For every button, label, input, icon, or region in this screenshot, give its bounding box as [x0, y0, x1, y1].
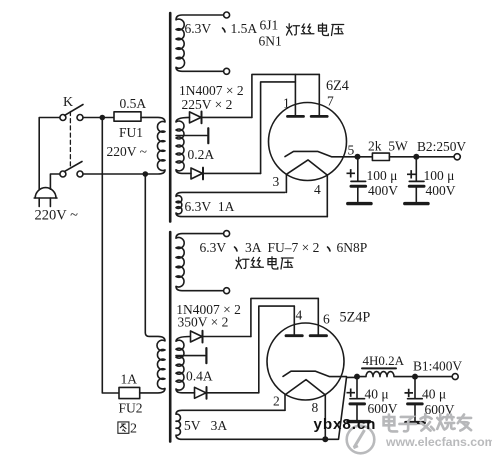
T1 HV winding 225Vx2: [176, 117, 191, 173]
V1 plate pin7: [311, 74, 327, 116]
V1 heater: [286, 160, 327, 175]
transformer T1 primary winding: [141, 117, 165, 174]
V2 pin 8 lead: [324, 395, 326, 439]
svg-text:400V: 400V: [426, 183, 456, 198]
ideographic comma (6.3V、3A): [235, 247, 238, 251]
wire V1 outer feed (to pin 7): [252, 74, 319, 117]
svg-text:1A: 1A: [121, 372, 138, 387]
svg-text:5V 3A: 5V 3A: [184, 418, 227, 433]
plus C4: [405, 389, 414, 397]
terminal B1: [452, 374, 458, 380]
tube V1 6Z4 envelope: [269, 103, 347, 181]
fuse FU1: [114, 112, 141, 121]
resistor R1 2k 5W: [372, 153, 389, 160]
svg-text:6J1: 6J1: [260, 18, 279, 33]
transformer T1 core: [169, 13, 172, 222]
V1 cathode to pin 5: [285, 151, 358, 156]
transformer T2 core: [169, 232, 172, 442]
terminal 6.3V3A top: [224, 231, 230, 237]
ideographic comma (6.3V、1.5A): [223, 28, 226, 32]
junction node A (mains bus): [100, 115, 106, 121]
node B2 rail junction 1: [355, 154, 361, 160]
diode D4 (1N4007 lower): [195, 387, 207, 399]
V1 pin 3 lead: [285, 174, 287, 192]
choke L1 4H 0.2A: [357, 368, 452, 376]
plus C3: [347, 389, 356, 397]
T1 winding 6.3V 1A: [176, 192, 327, 216]
char 电: [319, 23, 329, 35]
svg-text:6: 6: [323, 312, 330, 327]
svg-text:1N4007 × 2: 1N4007 × 2: [179, 83, 244, 98]
switch K bottom pole: [60, 162, 83, 178]
svg-text:2: 2: [273, 394, 280, 409]
wire plug-right to switch bottom pole: [50, 174, 60, 189]
svg-text:6N8P: 6N8P: [337, 240, 368, 255]
node pin8 / 5V rail junction: [322, 436, 328, 442]
ground C2: [405, 202, 428, 205]
svg-text:400V: 400V: [368, 183, 398, 198]
wire V1 inner feed (to pin 1): [261, 82, 296, 173]
svg-text:3A: 3A: [245, 240, 262, 255]
diode D2 (1N4007 lower): [191, 168, 203, 180]
wire resistor to B2 terminal: [389, 156, 454, 158]
svg-text:7: 7: [327, 94, 334, 109]
svg-text:100 μ: 100 μ: [367, 168, 398, 183]
svg-text:6N1: 6N1: [259, 34, 282, 49]
svg-text:6.3V: 6.3V: [185, 21, 212, 36]
V1 pin 4 lead: [326, 176, 328, 217]
svg-text:1.5A: 1.5A: [231, 21, 258, 36]
junction node T1-primary/T2-feed: [143, 171, 149, 177]
watermark 电子发烧友 script: [384, 414, 471, 431]
svg-text:3: 3: [273, 174, 280, 189]
svg-text:2: 2: [130, 422, 137, 437]
svg-text:2k 5W: 2k 5W: [368, 139, 408, 154]
svg-text:225V × 2: 225V × 2: [182, 97, 233, 112]
T2 HV winding 350Vx2: [176, 337, 195, 393]
svg-text:1: 1: [283, 96, 290, 111]
terminal 6.3V3A bottom: [224, 288, 230, 294]
tube V2 5Z4P envelope: [267, 323, 344, 400]
T2 winding 5V 3A: [176, 377, 357, 439]
T1 HV center tap bar: [207, 128, 209, 143]
svg-text:4H0.2A: 4H0.2A: [363, 353, 405, 368]
svg-text:4: 4: [314, 182, 321, 197]
svg-text:FU1: FU1: [119, 125, 143, 140]
svg-text:K: K: [63, 95, 73, 110]
wire D3 to V2 pin6 feed: [203, 336, 251, 338]
diode D1 (1N4007 upper): [190, 112, 202, 124]
svg-text:40 μ: 40 μ: [365, 387, 389, 402]
svg-text:0.2A: 0.2A: [188, 147, 215, 162]
T2 HV center tap wire: [176, 355, 205, 357]
V2 cathode: [283, 371, 347, 376]
wire D2 to V1 pin1 feed: [203, 172, 261, 174]
switch K top pole: [60, 105, 83, 121]
char 灯丝电压 top: [287, 23, 344, 35]
plus C2: [407, 170, 416, 178]
svg-text:4: 4: [296, 308, 303, 323]
svg-text:100 μ: 100 μ: [424, 168, 455, 183]
svg-text:FU2: FU2: [119, 401, 143, 416]
plug 220V mains: [34, 188, 57, 207]
watermark elecfans logo circle: [347, 426, 375, 454]
svg-text:FU–7 × 2: FU–7 × 2: [268, 240, 320, 255]
T1 HV center tap wire: [176, 135, 207, 137]
char 压: [332, 25, 344, 36]
terminal B2: [454, 154, 460, 160]
wire plug-left to switch top pole: [39, 118, 60, 190]
svg-text:B2:250V: B2:250V: [417, 139, 466, 154]
svg-text:B1:400V: B1:400V: [413, 359, 462, 374]
svg-text:0.5A: 0.5A: [120, 96, 147, 111]
plus signs: [347, 169, 416, 397]
wire V2 inner feed (to pin 4): [259, 306, 295, 393]
svg-text:220V ~: 220V ~: [107, 144, 147, 159]
svg-text:www.elecfans.com: www.elecfans.com: [385, 435, 492, 449]
V2 heater: [286, 380, 326, 395]
ideographic comma (FU-7x2、6N8P): [328, 247, 331, 251]
node B1 rail junction 2: [412, 374, 418, 380]
V2 plate pin6: [310, 298, 326, 335]
wire V2 outer feed (to pin 6): [251, 298, 318, 336]
V2 pin 2 lead: [284, 394, 286, 410]
T2 winding 6.3V 3A: [176, 234, 224, 291]
node B1 rail junction 1: [354, 374, 360, 380]
switch K mechanical link (dashed): [69, 112, 71, 168]
capacitor C1 100u400V: [351, 157, 366, 202]
ground C4: [406, 421, 424, 424]
wire switch bottom pole to T1 primary bottom: [83, 173, 145, 175]
T1 winding 6.3V 1.5A: [176, 15, 224, 71]
wire junction down to FU2: [102, 118, 119, 394]
svg-text:350V × 2: 350V × 2: [178, 315, 229, 330]
wire switch top pole to junction: [83, 117, 114, 119]
char 灯丝电压 bottom: [236, 257, 293, 269]
plus C1: [347, 169, 356, 177]
ground C1: [348, 202, 371, 205]
svg-text:6.3V 1A: 6.3V 1A: [185, 199, 235, 214]
char 丝: [301, 24, 314, 34]
T2 HV center tap bar: [205, 348, 207, 363]
CJK-DRAWN: [223, 28, 331, 251]
char 图 of 图2: [118, 422, 129, 433]
fuse FU2: [119, 387, 140, 398]
svg-text:5: 5: [348, 143, 355, 158]
svg-text:5Z4P: 5Z4P: [340, 310, 371, 326]
svg-text:6Z4: 6Z4: [326, 78, 349, 94]
V1 plate pin1: [288, 74, 304, 116]
terminal 6.3V1.5A bottom: [224, 68, 230, 74]
svg-text:8: 8: [312, 400, 319, 415]
capacitor C3 40u600V: [350, 377, 365, 420]
char 灯: [287, 24, 300, 35]
svg-text:40 μ: 40 μ: [422, 387, 446, 402]
svg-text:220V ~: 220V ~: [35, 208, 79, 224]
svg-text:0.4A: 0.4A: [186, 369, 213, 384]
svg-text:6.3V: 6.3V: [200, 240, 227, 255]
wire to resistor: [358, 156, 373, 158]
svg-text:600V: 600V: [368, 401, 398, 416]
capacitor C4 40u600V: [408, 377, 423, 421]
svg-text:ybx8.cn: ybx8.cn: [314, 416, 377, 433]
transformer T2 primary winding: [140, 174, 165, 393]
wire D1 to V1 pin7 feed: [202, 116, 252, 118]
ground C3: [348, 420, 370, 423]
capacitor C2 100u400V: [409, 157, 424, 202]
terminal 6.3V1.5A top: [224, 12, 230, 18]
node B2 rail junction 2: [413, 154, 419, 160]
diode D3 (1N4007 upper): [191, 331, 203, 343]
wire D4 to V2 pin4 feed: [207, 392, 259, 394]
V2 plate pin4: [286, 306, 302, 336]
